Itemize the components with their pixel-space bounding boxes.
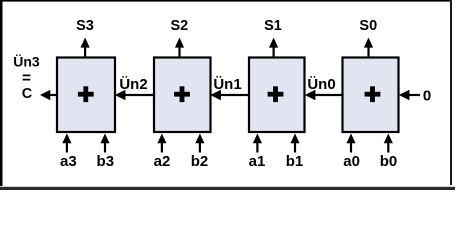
svg-text:b0: b0 (380, 153, 398, 170)
adder block U2 (bits 2) (154, 58, 211, 133)
svg-text:Ün1: Ün1 (213, 76, 241, 93)
svg-text:b2: b2 (191, 153, 209, 170)
input wire a0 arrow (346, 134, 355, 153)
plus symbol of U0 (365, 86, 381, 102)
svg-text:S1: S1 (264, 18, 282, 34)
svg-text:0: 0 (423, 88, 431, 105)
svg-text:Ün0: Ün0 (307, 76, 335, 93)
carry wire Un2 arrow (U2 to U3) (115, 90, 154, 100)
adder block U0 (bits 0) (343, 58, 399, 133)
plus symbol of U1 (268, 86, 284, 102)
svg-text:=: = (22, 70, 31, 87)
svg-text:a3: a3 (60, 153, 77, 170)
adder block U1 (bits 1) (249, 58, 305, 133)
plus symbol of U2 (174, 86, 190, 102)
wire S3 output arrow (81, 38, 90, 58)
input wire a3 arrow (62, 134, 71, 153)
svg-text:S3: S3 (76, 18, 94, 34)
svg-text:a2: a2 (154, 153, 171, 170)
wire S2 output arrow (175, 38, 184, 58)
svg-text:a1: a1 (249, 153, 266, 170)
outer frame bottom bar (0, 187, 455, 190)
svg-text:Ün2: Ün2 (119, 76, 147, 93)
wire S1 output arrow (269, 38, 278, 58)
plus symbol of U3 (78, 86, 94, 102)
outer frame left bar (0, 0, 3, 186)
input wire b1 arrow (290, 134, 299, 153)
input wire b2 arrow (195, 134, 204, 153)
input wire b0 arrow (384, 134, 393, 153)
svg-text:b3: b3 (97, 153, 115, 170)
input wire b3 arrow (100, 134, 109, 153)
outer frame top bar (0, 0, 452, 2)
svg-text:a0: a0 (343, 153, 360, 170)
adder block U3 (bits 3) (57, 58, 115, 133)
svg-text:C: C (22, 86, 33, 102)
carry-out wire C arrow (left) (40, 90, 57, 101)
svg-text:b1: b1 (286, 153, 304, 170)
carry wire Un1 arrow (U1 to U2) (210, 90, 249, 100)
input wire a1 arrow (253, 134, 262, 153)
carry wire Un0 arrow (U0 to U1) (305, 90, 343, 100)
svg-text:S0: S0 (359, 18, 377, 34)
wire S0 output arrow (364, 38, 373, 58)
svg-text:Ün3: Ün3 (13, 54, 40, 70)
input wire a2 arrow (157, 134, 166, 153)
outer frame right bar (450, 0, 452, 185)
svg-text:S2: S2 (171, 18, 189, 34)
carry-in wire 0 arrow (right into U0) (399, 90, 420, 100)
